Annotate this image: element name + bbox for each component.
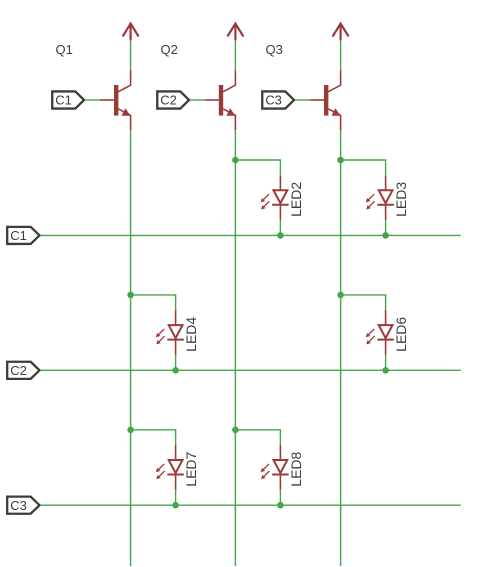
wire column branch to LED8 anode <box>235 430 280 445</box>
wire LED3 cathode to row <box>385 220 387 236</box>
power arrow (Q3 collector supply) <box>333 24 349 41</box>
svg-text:LED2: LED2 <box>288 182 304 217</box>
wire C3 tag to Q3 base <box>295 99 310 101</box>
svg-text:C1: C1 <box>10 228 27 243</box>
svg-text:C2: C2 <box>160 93 177 108</box>
junction node (LED7 branch from column) <box>127 427 134 434</box>
tag C2 (row net label) <box>7 362 39 379</box>
LED LED8 <box>261 445 289 490</box>
svg-text:Q2: Q2 <box>161 42 178 57</box>
wire C1 tag to Q1 base <box>85 99 100 101</box>
tag C3 (row net label) <box>7 497 39 514</box>
svg-text:Q3: Q3 <box>266 42 283 57</box>
LED LED7 <box>156 445 184 490</box>
svg-text:C2: C2 <box>10 363 27 378</box>
svg-text:LED8: LED8 <box>288 451 304 486</box>
LED LED4 <box>156 310 184 355</box>
junction node (LED4 branch from column) <box>127 292 134 299</box>
wire column branch to LED6 anode <box>341 295 386 310</box>
LED LED6 <box>366 310 394 355</box>
junction node (LED2 branch from column) <box>232 157 239 164</box>
junction node (LED6 cathode on row C2) <box>382 367 389 374</box>
wire column branch to LED2 anode <box>235 160 280 175</box>
wire Q3 emitter column <box>340 130 342 566</box>
wire column branch to LED4 anode <box>131 295 176 310</box>
junction node (LED6 branch from column) <box>337 292 344 299</box>
power arrow (Q1 collector supply) <box>123 24 139 41</box>
wire LED4 cathode to row <box>175 355 177 371</box>
wire Q2 emitter column <box>234 130 236 566</box>
LED LED3 <box>366 175 394 220</box>
transistor Q1 (NPN) <box>100 71 131 131</box>
wire LED7 cathode to row <box>175 490 177 506</box>
svg-text:LED7: LED7 <box>183 451 199 486</box>
svg-text:LED3: LED3 <box>393 182 409 217</box>
junction node (LED2 cathode on row C1) <box>277 232 284 239</box>
wire column branch to LED7 anode <box>131 430 176 445</box>
junction node (LED8 branch from column) <box>232 427 239 434</box>
wire Q3 collector net <box>340 40 342 70</box>
junction node (LED8 cathode on row C3) <box>277 502 284 509</box>
wire row C3 <box>41 504 461 506</box>
wire row C2 <box>41 369 461 371</box>
wire column branch to LED3 anode <box>341 160 386 175</box>
svg-text:C1: C1 <box>55 93 72 108</box>
svg-text:LED4: LED4 <box>183 317 199 352</box>
wire LED2 cathode to row <box>279 220 281 236</box>
svg-text:Q1: Q1 <box>56 42 73 57</box>
LED LED2 <box>261 175 289 220</box>
wire Q1 collector net <box>130 40 132 70</box>
wire LED6 cathode to row <box>385 355 387 371</box>
junction node (LED4 cathode on row C2) <box>172 367 179 374</box>
wire C2 tag to Q2 base <box>190 99 205 101</box>
wire Q1 emitter column <box>130 130 132 566</box>
junction node (LED7 cathode on row C3) <box>172 502 179 509</box>
wire row C1 <box>41 234 461 236</box>
wire Q2 collector net <box>234 40 236 70</box>
wire LED8 cathode to row <box>279 490 281 506</box>
transistor Q3 (NPN) <box>310 71 341 131</box>
tag C1 (row net label) <box>7 227 39 244</box>
svg-text:C3: C3 <box>265 93 282 108</box>
tag C1 (base input label) <box>52 91 84 108</box>
transistor Q2 (NPN) <box>205 71 236 131</box>
tag C3 (base input label) <box>262 91 294 108</box>
junction node (LED3 branch from column) <box>337 157 344 164</box>
tag C2 (base input label) <box>157 91 189 108</box>
svg-text:LED6: LED6 <box>393 317 409 352</box>
svg-text:C3: C3 <box>10 498 27 513</box>
power arrow (Q2 collector supply) <box>227 24 243 41</box>
junction node (LED3 cathode on row C1) <box>382 232 389 239</box>
